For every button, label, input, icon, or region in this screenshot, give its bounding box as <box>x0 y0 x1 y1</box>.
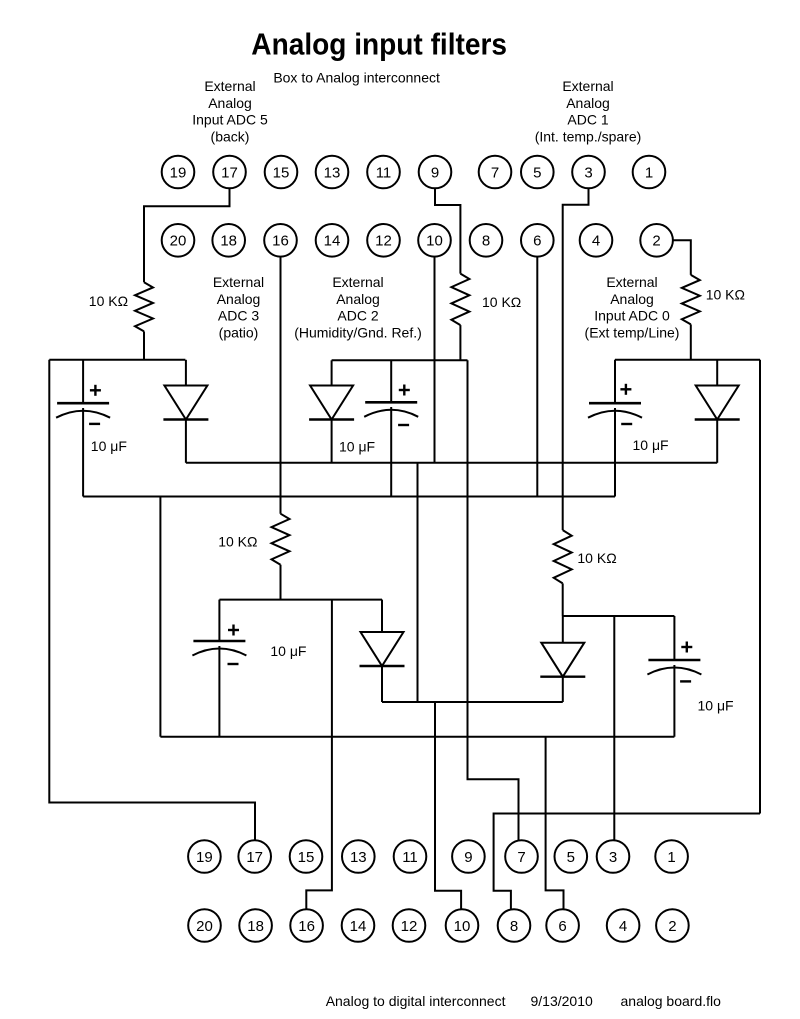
connector J1 top pin 9 <box>419 156 452 189</box>
wire R4 to node C <box>690 324 692 359</box>
svg-text:3: 3 <box>609 849 617 866</box>
svg-text:External: External <box>562 78 613 94</box>
svg-text:10: 10 <box>426 233 443 250</box>
svg-text:19: 19 <box>196 849 213 866</box>
svg-text:4: 4 <box>592 233 600 250</box>
connector J1 top pin 13 <box>316 156 349 189</box>
wire C2 top stem <box>390 360 392 402</box>
wire node C right drop <box>759 360 761 814</box>
connector J2 bottom pin 8 <box>498 909 531 942</box>
wire node A to bottom pin 17 <box>49 360 255 841</box>
svg-text:(Int. temp./spare): (Int. temp./spare) <box>535 128 642 144</box>
svg-text:13: 13 <box>324 164 341 181</box>
svg-text:15: 15 <box>298 849 315 866</box>
wire C3 bottom stem <box>673 665 675 737</box>
svg-text:10 μF: 10 μF <box>270 643 306 659</box>
svg-text:Analog: Analog <box>217 291 261 307</box>
connector J1 top pin 12 <box>367 224 400 257</box>
svg-text:12: 12 <box>375 233 392 250</box>
svg-text:analog board.flo: analog board.flo <box>621 993 722 1009</box>
connector J2 bottom pin 19 <box>188 840 221 873</box>
connector J2 bottom pin 7 <box>505 840 538 873</box>
wire node C rail (ADC 0 filter) <box>615 359 760 361</box>
label External Analog Input ADC 0 (Ext temp/Line) <box>585 274 680 340</box>
connector J2 bottom pin 5 <box>555 840 588 873</box>
svg-text:4: 4 <box>619 918 627 935</box>
svg-text:17: 17 <box>246 849 263 866</box>
connector J1 top pin 5 <box>521 156 554 189</box>
svg-text:ADC 1: ADC 1 <box>567 112 608 128</box>
connector J1 top pin 19 <box>162 156 195 189</box>
capacitor C5 10uF <box>192 625 246 665</box>
wire D1 bottom stem <box>185 420 187 463</box>
svg-text:Input ADC 5: Input ADC 5 <box>192 112 268 128</box>
svg-text:15: 15 <box>273 164 290 181</box>
wire pin16 to R5 <box>280 257 282 514</box>
svg-text:External: External <box>332 274 383 290</box>
wire ground link rail D5-D3 <box>382 701 563 703</box>
wire node B to bottom pin 7 <box>468 360 519 840</box>
resistor R4 10K (ADC 0) <box>682 275 700 325</box>
svg-text:External: External <box>213 274 264 290</box>
svg-text:Input ADC 0: Input ADC 0 <box>594 308 670 324</box>
wire R5 to node D <box>280 565 282 600</box>
wire node D to bottom pin 16 <box>306 600 332 910</box>
svg-text:5: 5 <box>567 849 575 866</box>
wire pin2 to R4 <box>673 240 691 275</box>
capacitor C1 10uF <box>56 385 110 424</box>
connector J1 top pin 4 <box>580 224 613 257</box>
wire node E rail (ADC 1 filter) <box>563 615 675 617</box>
connector J2 bottom pin 11 <box>394 840 427 873</box>
svg-text:9: 9 <box>464 849 472 866</box>
wire node D rail (ADC 3 filter) <box>219 599 382 601</box>
wire C5 top stem <box>218 600 220 641</box>
connector J2 bottom pin 14 <box>342 909 375 942</box>
svg-text:External: External <box>606 274 657 290</box>
resistor R5 10K (ADC 3) <box>272 514 290 565</box>
label External Analog ADC 1 (Int. temp./spare) <box>535 78 642 144</box>
wire node E to bottom pin 3 <box>613 616 615 840</box>
wire ground rail A (diode returns) <box>186 462 717 464</box>
resistor R2 10K (ADC 2) <box>451 274 469 326</box>
wire rail C to bottom pin 6 <box>546 737 564 910</box>
connector J2 bottom pin 18 <box>239 909 272 942</box>
diode D5 (ADC 3) <box>360 632 405 666</box>
wire D3 top stem <box>562 616 564 643</box>
svg-text:1: 1 <box>645 164 653 181</box>
wire D2 top stem <box>331 360 333 385</box>
svg-text:Analog: Analog <box>610 291 654 307</box>
diode D3 (ADC 1) <box>540 643 585 677</box>
wire rail A to link rail <box>417 463 419 702</box>
connector J2 bottom pin 3 <box>597 840 630 873</box>
svg-text:Box to Analog interconnect: Box to Analog interconnect <box>273 70 440 86</box>
svg-text:10 KΩ: 10 KΩ <box>706 287 745 303</box>
svg-text:20: 20 <box>170 233 187 250</box>
connector J1 top pin 7 <box>479 156 512 189</box>
connector J2 bottom pin 4 <box>607 909 640 942</box>
svg-text:Analog to digital interconnect: Analog to digital interconnect <box>326 993 506 1009</box>
svg-text:(Ext temp/Line): (Ext temp/Line) <box>585 324 680 340</box>
svg-text:13: 13 <box>350 849 367 866</box>
wire R1 to node A <box>143 331 145 359</box>
svg-text:10 μF: 10 μF <box>698 698 734 714</box>
svg-text:10 μF: 10 μF <box>633 437 669 453</box>
connector J2 bottom pin 15 <box>290 840 323 873</box>
connector J1 top pin 10 <box>418 224 451 257</box>
wire D5 top stem <box>381 600 383 632</box>
connector J1 top pin 15 <box>265 156 298 189</box>
wire C1 top stem <box>82 360 84 403</box>
svg-text:8: 8 <box>510 918 518 935</box>
connector J1 top pin 16 <box>264 224 297 257</box>
connector J1 top pin 1 <box>633 156 666 189</box>
connector J2 bottom pin 1 <box>655 840 688 873</box>
svg-text:7: 7 <box>517 849 525 866</box>
svg-text:(Humidity/Gnd. Ref.): (Humidity/Gnd. Ref.) <box>294 324 422 340</box>
svg-text:9/13/2010: 9/13/2010 <box>531 993 593 1009</box>
label External Analog ADC 2 (Humidity/Gnd. Ref.) <box>294 274 422 340</box>
capacitor C2 10uF <box>364 385 418 426</box>
svg-text:19: 19 <box>170 164 187 181</box>
capacitor C4 10uF <box>588 384 642 424</box>
svg-text:10 KΩ: 10 KΩ <box>218 534 257 550</box>
connector J2 bottom pin 10 <box>446 909 479 942</box>
svg-text:20: 20 <box>196 918 213 935</box>
wire C3 top stem <box>673 616 675 660</box>
svg-text:Analog input filters: Analog input filters <box>251 28 507 62</box>
wire right drop to bottom pin 8 <box>494 814 760 910</box>
wire D5 bottom stem <box>381 666 383 702</box>
label External Analog Input ADC 5 (back) <box>192 78 268 144</box>
wire node B rail (ADC 2 filter) <box>332 359 468 361</box>
resistor R3 10K (ADC 1) <box>554 530 572 583</box>
svg-text:14: 14 <box>350 918 367 935</box>
wire pin6 to ground rail B <box>536 257 538 497</box>
svg-text:11: 11 <box>376 164 392 181</box>
connector J2 bottom pin 17 <box>238 840 271 873</box>
svg-text:12: 12 <box>401 918 418 935</box>
svg-text:6: 6 <box>558 918 566 935</box>
svg-text:Analog: Analog <box>336 291 380 307</box>
svg-text:11: 11 <box>402 849 418 866</box>
capacitor C3 10uF <box>647 642 701 682</box>
connector J2 bottom pin 20 <box>188 909 221 942</box>
wire pin9 to R2 <box>435 189 460 274</box>
wire D1 top stem <box>185 360 187 386</box>
connector J1 top pin 8 <box>470 224 503 257</box>
svg-text:7: 7 <box>491 164 499 181</box>
svg-text:10: 10 <box>454 918 471 935</box>
connector J1 top pin 6 <box>521 224 554 257</box>
connector J2 bottom pin 6 <box>546 909 579 942</box>
svg-text:16: 16 <box>298 918 315 935</box>
connector J2 bottom pin 13 <box>342 840 375 873</box>
wire C2 bottom stem <box>390 407 392 497</box>
svg-text:(back): (back) <box>211 128 250 144</box>
svg-text:10 KΩ: 10 KΩ <box>89 293 128 309</box>
svg-text:2: 2 <box>652 233 660 250</box>
diode D4 (ADC 0) <box>695 386 740 420</box>
diode D2 (ADC 2) <box>309 386 354 420</box>
svg-text:Analog: Analog <box>208 95 252 111</box>
svg-text:10 μF: 10 μF <box>91 438 127 454</box>
svg-text:5: 5 <box>533 164 541 181</box>
svg-text:18: 18 <box>220 233 237 250</box>
connector J2 bottom pin 12 <box>393 909 426 942</box>
wire R3 to node E <box>562 583 564 616</box>
svg-text:8: 8 <box>482 233 490 250</box>
connector J1 top pin 20 <box>162 224 195 257</box>
svg-text:14: 14 <box>324 233 341 250</box>
svg-text:10 KΩ: 10 KΩ <box>577 550 616 566</box>
wire D4 top stem <box>716 360 718 386</box>
wire D4 bottom stem <box>716 420 718 463</box>
connector J2 bottom pin 9 <box>452 840 485 873</box>
connector J2 bottom pin 2 <box>656 909 689 942</box>
svg-text:2: 2 <box>668 918 676 935</box>
resistor R1 10K (ADC 5) <box>135 282 153 331</box>
svg-text:ADC 3: ADC 3 <box>218 308 259 324</box>
wire D3 bottom stem <box>562 677 564 702</box>
wire pin3 to R3 <box>563 189 589 531</box>
connector J1 top pin 2 <box>640 224 673 257</box>
wire C4 bottom stem <box>614 408 616 497</box>
wire C4 top stem <box>614 360 616 404</box>
svg-text:1: 1 <box>667 849 675 866</box>
svg-text:3: 3 <box>584 164 592 181</box>
connector J1 top pin 11 <box>367 156 400 189</box>
svg-text:10 μF: 10 μF <box>339 439 375 455</box>
connector J2 bottom pin 16 <box>290 909 323 942</box>
wire C1 bottom stem <box>82 408 84 497</box>
connector J1 top pin 14 <box>316 224 349 257</box>
svg-text:17: 17 <box>221 164 238 181</box>
svg-text:16: 16 <box>272 233 289 250</box>
label External Analog ADC 3 (patio) <box>213 274 264 340</box>
connector J1 top pin 3 <box>572 156 605 189</box>
wire C5 bottom stem <box>218 646 220 737</box>
svg-text:6: 6 <box>533 233 541 250</box>
wire link rail to bottom pin 10 <box>435 702 461 909</box>
svg-text:9: 9 <box>431 164 439 181</box>
svg-text:External: External <box>204 78 255 94</box>
svg-text:ADC 2: ADC 2 <box>337 308 378 324</box>
wire D2 bottom stem <box>331 420 333 463</box>
svg-text:18: 18 <box>247 918 264 935</box>
wire ground rail B (capacitor returns) <box>83 496 615 498</box>
wire R2 to node B <box>459 325 461 360</box>
svg-text:(patio): (patio) <box>219 324 259 340</box>
connector J1 top pin 17 <box>213 156 246 189</box>
wire node A rail (ADC 5 filter) <box>49 359 185 361</box>
svg-text:Analog: Analog <box>566 95 610 111</box>
wire rail B to rail C link <box>159 497 161 737</box>
wire ground rail C (lower cap returns) <box>160 736 674 738</box>
diode D1 (ADC 5) <box>163 386 208 420</box>
wire pin17 to R1 <box>144 189 230 283</box>
connector J1 top pin 18 <box>212 224 245 257</box>
wire pin10 to ground rail A <box>434 257 436 463</box>
svg-text:10 KΩ: 10 KΩ <box>482 294 521 310</box>
